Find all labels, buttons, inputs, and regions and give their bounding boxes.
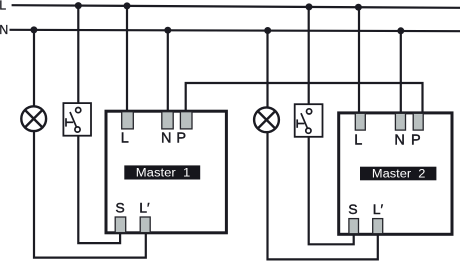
svg-text:L′: L′ [139,199,150,215]
svg-text:S: S [348,201,357,217]
svg-text:L: L [0,0,6,13]
wire: N bus to Master1 terminal N [167,30,169,113]
device Master 1 box [106,111,226,233]
junction on L bus at Master2 L [355,4,362,11]
svg-text:L′: L′ [373,201,384,217]
wire: N bus to lamp E1 [33,30,35,107]
wire: L bus to switch S2 [308,7,310,110]
lamp E1 [21,106,46,131]
svg-text:N: N [0,23,8,37]
junction on L bus at switch S2 [306,3,313,10]
svg-text:L: L [354,133,362,149]
wire: switch S1 to Master1 terminal S [78,132,120,243]
push-button switch S2 [295,104,323,137]
junction on N bus at Master2 N [397,27,404,34]
Master1 terminal L (pad) [122,112,134,129]
Master1 terminal N (pad) [162,112,173,129]
Master2 terminal L (pad) [355,113,365,130]
Master2 terminal S (pad) [349,219,359,234]
device Master 2 box [339,113,452,234]
wire: L bus to Master2 terminal L [358,7,360,114]
wire: L bus to Master1 terminal L [126,6,128,113]
svg-text:N: N [161,131,171,147]
wire: N bus [10,30,460,31]
Master1 terminal L' (pad) [140,217,150,233]
svg-text:N: N [394,133,404,149]
svg-text:Master 1: Master 1 [136,168,191,180]
wire: N bus to lamp E2 [266,31,268,108]
wire: Master1 terminal P to Master2 terminal P [186,83,423,115]
Master2 terminal N (pad) [395,113,405,130]
lamp E2 [254,107,279,132]
svg-text:L: L [121,131,129,147]
Master 2 name badge [360,167,436,181]
Master1 terminal S (pad) [115,217,126,233]
svg-text:S: S [115,199,124,215]
wire: L bus to switch S1 [77,6,79,108]
wire: lamp E2 to Master2 terminal L' [268,133,378,259]
wire: L bus [12,5,460,8]
svg-text:P: P [411,133,421,149]
Master2 terminal P (pad) [413,113,423,130]
wire: N bus to Master2 terminal N [400,31,402,115]
Master2 terminal L' (pad) [373,219,383,234]
junction on N bus at lamp E1 [30,26,37,33]
push-button switch S1 [63,103,91,136]
junction on N bus at lamp E2 [264,27,271,34]
svg-text:P: P [176,131,186,147]
junction on L bus at Master1 L [124,2,131,9]
wire: lamp E1 to Master1 terminal L' [34,131,146,258]
Master1 terminal P (pad) [180,112,192,129]
junction on L bus at switch S1 [75,2,82,9]
wire: switch S2 to Master2 terminal S [309,134,354,245]
Master 1 name badge [124,165,200,179]
junction on N bus at Master1 N [164,27,171,34]
svg-text:Master 2: Master 2 [372,169,426,181]
